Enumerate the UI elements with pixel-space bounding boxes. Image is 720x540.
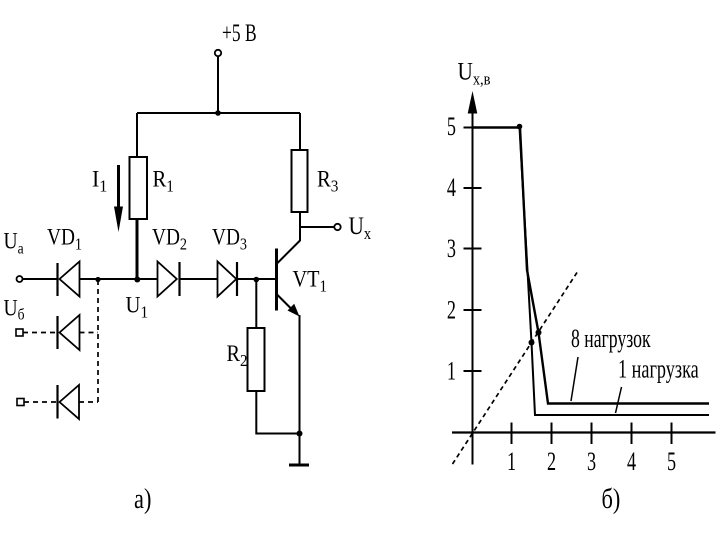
power terminal +5 В <box>215 19 257 56</box>
svg-text:Uх,в: Uх,в <box>458 58 491 89</box>
svg-text:4: 4 <box>447 173 456 202</box>
diode VD2 <box>158 262 180 297</box>
wire base node down to R2 <box>255 279 257 328</box>
x tick 5 <box>671 423 673 445</box>
dashed unity line <box>453 273 578 465</box>
svg-text:5: 5 <box>447 112 456 141</box>
wire rail to R3 top <box>299 113 301 150</box>
svg-text:3: 3 <box>447 234 456 263</box>
x tick 3 <box>591 423 593 445</box>
dashed bus vertical <box>97 280 99 402</box>
wire VD3 to base <box>237 278 276 280</box>
resistor R1 <box>130 157 148 219</box>
wire R1 bottom to node U1 <box>136 219 139 280</box>
svg-text:1: 1 <box>507 447 516 476</box>
svg-text:б): б) <box>602 484 621 515</box>
x tick 1 <box>511 423 513 445</box>
output terminal Ux <box>334 224 340 230</box>
input terminal 3 <box>17 399 24 406</box>
wire top rail <box>137 112 300 114</box>
junction dot on top rail <box>215 110 221 116</box>
svg-text:U1: U1 <box>126 293 149 322</box>
y tick 3 <box>464 248 482 250</box>
svg-text:4: 4 <box>627 447 636 476</box>
y tick 5 <box>464 127 482 129</box>
y tick 2 <box>464 309 482 311</box>
graph x axis <box>452 431 716 433</box>
current arrow I1 <box>114 165 123 232</box>
dot at curve corner <box>517 124 523 130</box>
wire node U1 to VD2 <box>137 278 158 280</box>
curve 8 loads descent and flat <box>520 128 709 404</box>
svg-text:R3: R3 <box>317 167 338 196</box>
svg-text:1 нагрузка: 1 нагрузка <box>618 354 699 383</box>
svg-text:R1: R1 <box>153 167 174 196</box>
diode VD3 <box>218 262 238 297</box>
svg-text:8 нагрузок: 8 нагрузок <box>571 324 651 353</box>
transistor VT1 <box>277 241 301 317</box>
wire emitter down <box>299 315 301 464</box>
svg-text:VD1: VD1 <box>47 224 82 254</box>
svg-text:2: 2 <box>547 447 556 476</box>
diode input 2 <box>58 315 80 350</box>
ground <box>289 464 309 467</box>
svg-text:Uа: Uа <box>4 228 25 258</box>
x tick 4 <box>631 423 633 445</box>
junction dot base/R2 <box>253 277 259 283</box>
svg-text:+5 В: +5 В <box>222 19 257 47</box>
svg-text:VT1: VT1 <box>293 266 327 295</box>
dashed wire diode 3 to dashed bus <box>79 401 98 403</box>
curve 1 load descent and flat <box>520 128 710 416</box>
curve flat at 5V <box>473 126 520 129</box>
wire output tap Ux <box>300 226 334 228</box>
svg-text:3: 3 <box>587 447 596 476</box>
junction dot node U1 <box>134 277 140 283</box>
x tick 2 <box>551 423 553 445</box>
input terminal Ub <box>16 329 23 336</box>
wire rail to R1 top <box>136 113 138 157</box>
dashed wire diode 2 to dashed bus <box>80 332 99 334</box>
graph y axis <box>468 91 478 465</box>
svg-text:2: 2 <box>447 295 456 324</box>
resistor R3 <box>292 150 308 212</box>
svg-text:а): а) <box>134 484 151 515</box>
dot crossing 1 load <box>529 340 535 346</box>
svg-text:1: 1 <box>447 356 456 385</box>
svg-text:VD2: VD2 <box>152 224 187 254</box>
svg-text:R2: R2 <box>227 341 248 370</box>
dashed wire terminal 3 to diode 3 <box>24 401 58 403</box>
svg-text:I1: I1 <box>92 166 107 196</box>
leader line 1 load <box>616 387 622 413</box>
dashed wire Ub to diode 2 <box>23 332 58 334</box>
wire R3 bottom to collector <box>299 212 301 241</box>
y tick 4 <box>464 187 482 189</box>
svg-text:Uб: Uб <box>4 295 25 324</box>
leader line 8 loads <box>571 357 578 401</box>
wire R2 bottom to emitter junction <box>256 391 299 434</box>
svg-text:VD3: VD3 <box>212 224 247 254</box>
wire VD2 to VD3 <box>180 278 218 280</box>
dot crossing 8 loads <box>536 330 542 336</box>
wire Ua to VD1 <box>23 278 58 280</box>
svg-text:5: 5 <box>667 447 676 476</box>
diode input 3 <box>58 385 80 419</box>
diode VD1 <box>58 262 80 297</box>
resistor R2 <box>248 328 265 391</box>
wire from +5V terminal to top rail <box>217 56 219 113</box>
junction dot emitter/R2 <box>297 431 303 437</box>
junction dot dashed branch <box>95 277 100 282</box>
svg-text:Uх: Uх <box>349 212 372 243</box>
y tick 1 <box>464 370 482 372</box>
wire VD1 to node U1 <box>80 278 138 280</box>
input terminal Ua <box>17 276 23 282</box>
